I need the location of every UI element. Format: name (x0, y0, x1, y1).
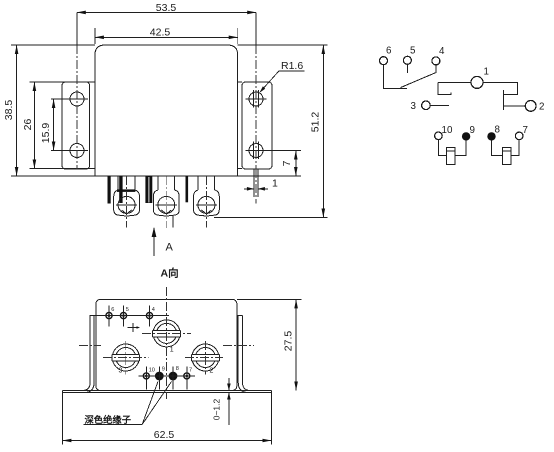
relay body outline (11, 45, 301, 176)
pin 4 (dark) (145, 176, 152, 203)
svg-text:0~1.2: 0~1.2 (212, 398, 222, 420)
right mounting flange (238, 82, 272, 169)
svg-text:2: 2 (539, 102, 544, 113)
dimension 62.5 (62, 393, 271, 445)
terminal 2 (185, 341, 223, 375)
pin 3 (411, 101, 431, 112)
svg-text:2: 2 (210, 368, 214, 375)
svg-text:51.2: 51.2 (310, 112, 322, 133)
dimension 51.2 (214, 45, 328, 218)
dimension 38.5 (3, 45, 95, 176)
svg-text:38.5: 38.5 (3, 100, 15, 121)
svg-text:62.5: 62.5 (154, 429, 175, 441)
bracket right wall (237, 316, 251, 393)
svg-text:10: 10 (149, 368, 155, 374)
dimension 42.5 (95, 26, 238, 44)
small pin 4 (146, 306, 155, 327)
right hole centerline (255, 45, 257, 169)
pin 9 (dark) (462, 125, 475, 141)
terminal lug 1 (114, 190, 140, 216)
flange hole top-left (51, 92, 88, 106)
terminal 1 centerline (166, 287, 168, 399)
top row horizontal line (89, 315, 169, 317)
pin 6 (380, 46, 393, 65)
small pin 6 (106, 306, 115, 327)
svg-text:15.9: 15.9 (40, 123, 52, 144)
coil 1 (446, 147, 455, 164)
svg-text:10: 10 (442, 125, 453, 136)
left hole centerline (76, 45, 78, 169)
wire stub pin 5 (406, 64, 408, 73)
coil 2 (502, 147, 511, 164)
svg-text:4: 4 (439, 46, 445, 57)
wire stub pin 4 (435, 65, 437, 73)
pin 10 (435, 125, 453, 140)
label R1.6 with leader (260, 60, 305, 93)
small pin 10 (138, 367, 155, 390)
terminal 3 (103, 341, 149, 375)
label dark insulator (84, 382, 172, 425)
svg-text:1: 1 (272, 178, 278, 190)
dimension 7 (281, 151, 297, 177)
svg-text:8: 8 (176, 366, 179, 372)
pin 4 (432, 46, 445, 65)
svg-text:1: 1 (170, 347, 174, 354)
svg-text:R1.6: R1.6 (281, 60, 303, 72)
horizontal centerline ticks (79, 344, 254, 346)
svg-text:9: 9 (470, 125, 475, 136)
svg-text:A向: A向 (161, 267, 179, 280)
wire pin10 to coil1 (438, 139, 446, 155)
pin 8 (dark) (487, 125, 500, 141)
left contact step (438, 82, 451, 94)
switch arm (401, 73, 437, 88)
lug 3 tab (198, 176, 215, 190)
small pin 8 (dark) (165, 366, 181, 390)
wire left of pin 1 (438, 81, 471, 83)
svg-text:1: 1 (484, 67, 489, 78)
svg-text:3: 3 (119, 368, 123, 375)
dimension 27.5 (237, 299, 302, 390)
wire from pin 6 (384, 65, 408, 89)
dimension 1 (pin width) (244, 178, 278, 191)
wire right of pin 1 (483, 82, 517, 94)
svg-text:42.5: 42.5 (150, 26, 171, 38)
pin 1 (com) (471, 67, 489, 89)
dimension 15.9 (40, 99, 56, 151)
svg-text:A: A (166, 242, 174, 254)
svg-text:5: 5 (410, 46, 416, 57)
dimension 53.5 (77, 2, 256, 14)
flange hole bottom-right (slotted) (246, 142, 301, 160)
svg-text:53.5: 53.5 (156, 2, 177, 14)
wire pin8 to coil2 (492, 140, 503, 155)
terminal lug 3 (194, 190, 220, 216)
flange hole top-right (slotted) (246, 90, 267, 108)
svg-text:5: 5 (126, 307, 129, 313)
section arrow A (152, 227, 174, 256)
svg-text:27.5: 27.5 (282, 331, 294, 352)
svg-text:8: 8 (495, 125, 501, 136)
lug 2 tab (158, 176, 175, 190)
svg-text:7: 7 (523, 125, 528, 136)
bracket left wall (82, 316, 94, 393)
body outline (96, 299, 237, 390)
pin 7 (dark) (186, 176, 189, 202)
lug 1 tab (118, 176, 135, 190)
svg-text:4: 4 (152, 307, 155, 313)
svg-text:6: 6 (111, 307, 114, 313)
wire pin9 to coil1 (455, 140, 466, 155)
dimension 26 (22, 82, 36, 169)
wire pin 3 (430, 104, 449, 106)
svg-text:6: 6 (386, 46, 392, 57)
left mounting flange (29, 82, 95, 169)
wire pin 2 (504, 105, 526, 107)
bracket base plate (62, 391, 271, 393)
pin 2 (525, 101, 544, 113)
pin 7 (515, 125, 528, 140)
terminal 1 (142, 320, 191, 354)
dimension 1~1.2 (212, 378, 231, 425)
dark pin in lug1 tab (119, 176, 122, 203)
svg-text:深色绝缘子: 深色绝缘子 (85, 414, 132, 425)
small pin 5 (120, 306, 129, 327)
svg-text:7: 7 (281, 160, 293, 166)
svg-text:7: 7 (189, 368, 192, 374)
pin 5 (403, 46, 416, 65)
svg-text:3: 3 (411, 101, 417, 112)
wire pin7 to coil2 (511, 139, 519, 155)
svg-text:9: 9 (162, 367, 165, 373)
right pin under flange with dim 1 (254, 169, 258, 203)
svg-text:26: 26 (22, 119, 34, 131)
plus mark (127, 323, 140, 332)
small pin 7 (179, 367, 195, 390)
line below lug 2 (172, 215, 174, 227)
terminal lug 2 (153, 190, 179, 216)
right contact bar (503, 90, 505, 110)
flange hole bottom-left (51, 144, 88, 158)
small pin 9 (dark) (151, 367, 167, 390)
pin 1 (thin dark) (108, 176, 111, 204)
